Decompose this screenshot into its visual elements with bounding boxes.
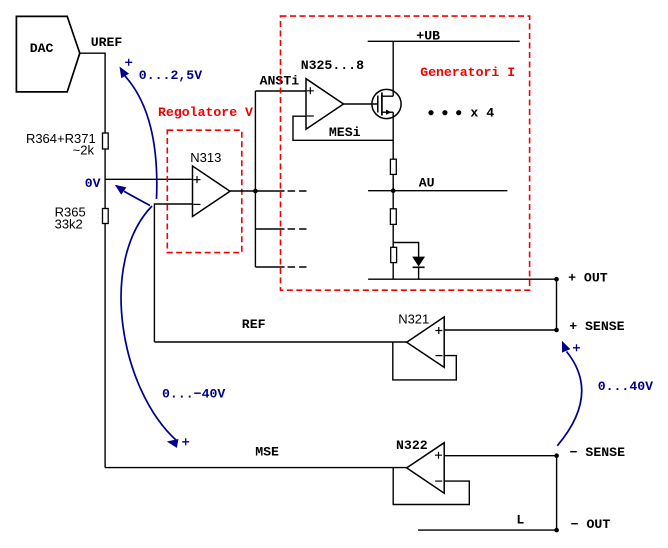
wire branch 2 stub [255,228,284,230]
svg-text:ANSTi: ANSTi [260,74,300,89]
node +OUT junction [554,277,559,282]
svg-text:UREF: UREF [91,35,123,50]
DAC block [16,16,79,92]
wire ANSTi vertical bus [254,91,256,267]
svg-text:x 4: x 4 [470,106,494,121]
svg-text:Regolatore V: Regolatore V [158,105,253,120]
node -SENSE junction [554,453,559,458]
svg-text:Generatori I: Generatori I [420,65,515,80]
svg-text:N322: N322 [396,438,428,453]
wire N325 output to gate [344,103,378,105]
op-amp N322 [407,443,445,494]
svg-text:+UB: +UB [416,29,440,44]
node junction N313 output [253,189,258,194]
svg-text:MESi: MESi [329,125,361,140]
op-amp N313 [193,166,231,217]
svg-text:0...−40V: 0...−40V [162,387,225,402]
wire -SENSE line to N322 + input [444,455,556,457]
svg-text:0...2,5V: 0...2,5V [139,68,202,83]
wire DAC output to left rail [80,53,105,467]
resistor R364+R371 [103,133,109,149]
svg-text:MSE: MSE [255,445,279,460]
wire REF line (to N321 output) [154,341,406,343]
svg-text:0...40V: 0...40V [598,379,653,394]
wire +OUT line [368,278,556,280]
wire N321 feedback [393,342,457,380]
svg-text:− OUT: − OUT [571,517,611,532]
regulator box Regolatore V [167,130,242,252]
op-amp N321 [407,317,445,368]
wire 0V line to N313 + input [105,178,192,180]
svg-text:N325...8: N325...8 [301,58,364,73]
blue arrow to 0V (B) [124,191,150,205]
blue arrow 0...-40V (C) [121,206,177,441]
wire dashed continuation row 3 [288,266,307,268]
svg-text:REF: REF [242,317,266,332]
resistor in source chain 2 [390,209,396,225]
wire drain up to +UB [392,41,394,96]
wire AU line [368,190,507,192]
wire branch 3 stub [255,266,284,268]
svg-text:0V: 0V [85,176,101,191]
svg-text:AU: AU [419,176,435,191]
wire MSE line (rail to N322 output) [105,467,407,469]
blue arrow 0...2,5V (A) [125,76,157,199]
wire +UB supply line [368,40,520,42]
wire N325 feedback MESi [293,116,393,140]
resistor in source chain 3 [391,247,397,262]
transistor Q (MOSFET) [372,89,401,118]
node AU junction [391,188,396,193]
svg-text:+ SENSE: + SENSE [569,319,624,334]
wire N322 feedback [393,468,469,505]
generator box Generatori I [281,16,530,290]
wire +SENSE line to N321 + input [444,329,556,331]
wire source down to +OUT line [392,112,394,279]
svg-text:L: L [516,513,524,528]
wire N313 - input to REF [154,204,192,342]
diode branch wire [393,243,418,258]
op-amp N325 [306,79,344,130]
diode D1 [413,257,424,266]
svg-text:N313: N313 [190,150,221,165]
svg-text:N321: N321 [398,312,429,327]
blue arrow 0...40V (D) [557,352,581,446]
wire -OUT line [418,529,556,531]
svg-text:− SENSE: − SENSE [570,445,625,460]
node -OUT junction [554,528,559,533]
node +SENSE junction [554,328,559,333]
resistor in source chain 1 [390,159,396,174]
ellipsis dots x 4 [428,110,433,115]
svg-text:DAC: DAC [30,41,54,56]
wire ANSTi to N325 + input [255,90,306,92]
svg-text:33k2: 33k2 [55,216,83,231]
wire dashed continuation row 1 [288,190,307,192]
wire +OUT to +SENSE [556,279,558,330]
wire N313 output [230,190,285,192]
wire dashed continuation row 2 [288,228,307,230]
svg-text:+ OUT: + OUT [568,271,608,286]
resistor R365 [103,209,109,224]
svg-text:~2k: ~2k [73,143,95,158]
wire -SENSE down to -OUT [556,456,558,530]
